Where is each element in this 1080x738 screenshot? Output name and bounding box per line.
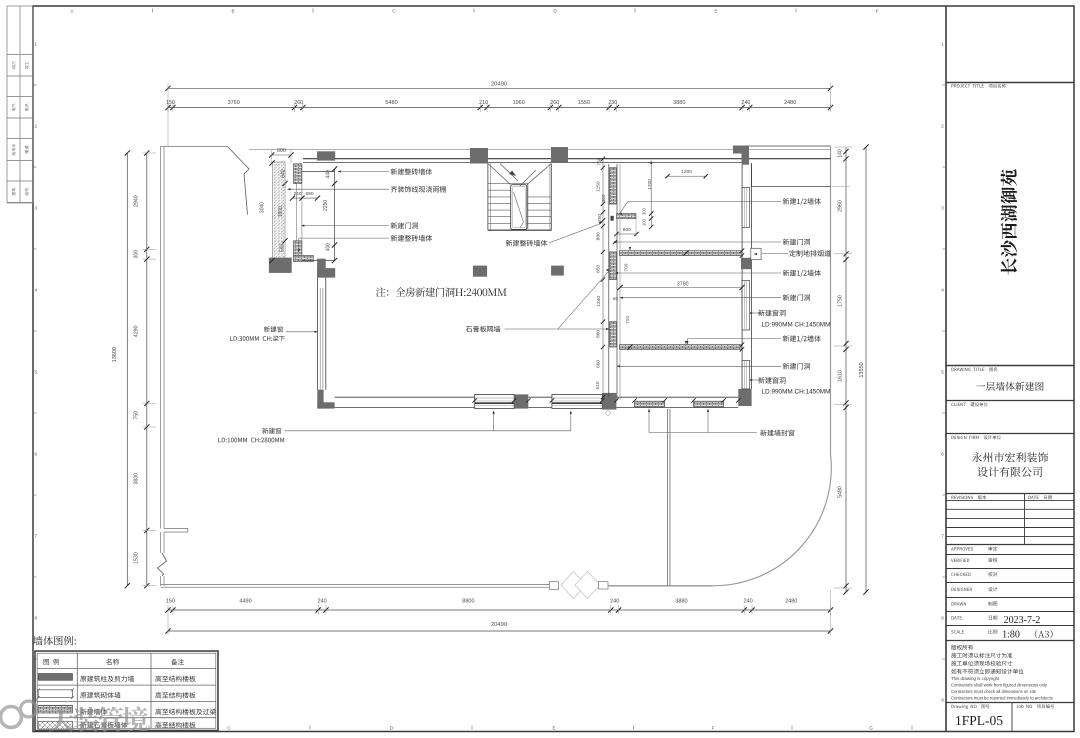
svg-text:590: 590 (279, 244, 285, 253)
svg-text:300: 300 (642, 207, 647, 215)
revisions rule (946, 493, 1074, 495)
svg-text:1800: 1800 (278, 206, 284, 217)
dim 600 wall stub (617, 233, 637, 235)
approved rule (946, 544, 1074, 546)
leader line door3 (618, 365, 781, 367)
overall bottom dimension 20490 (168, 630, 831, 632)
legend row3 texts (80, 709, 107, 715)
right wall lines (741, 165, 743, 389)
overall right dimension 13550 (865, 147, 867, 592)
wall stub junction block (611, 216, 614, 221)
partition wall arrows (629, 247, 631, 251)
svg-text:LD:990MM CH:1450MM: LD:990MM CH:1450MM (762, 389, 831, 396)
svg-text:660: 660 (596, 360, 602, 368)
svg-text:2023-7-2: 2023-7-2 (1004, 615, 1041, 626)
svg-text:5480: 5480 (385, 100, 397, 106)
verified row (951, 559, 969, 562)
svg-text:240: 240 (742, 100, 751, 106)
client rule (946, 400, 1074, 402)
label 新建门洞 (2) (783, 294, 810, 300)
svg-text:850: 850 (596, 264, 602, 272)
svg-text:440: 440 (325, 170, 331, 179)
site boundary right edge (830, 147, 832, 455)
svg-text:750: 750 (596, 157, 602, 165)
svg-text:1530: 1530 (134, 552, 140, 564)
checked row (951, 573, 970, 576)
label 定制地排烟道 (789, 250, 830, 257)
svg-text:3880: 3880 (673, 100, 685, 106)
svg-text:1200: 1200 (681, 169, 692, 175)
brick wall segment upper-left (294, 164, 302, 184)
label 新建门洞 (1) (783, 239, 810, 245)
svg-text:750: 750 (134, 411, 140, 420)
brick wall segment lower-left (294, 241, 302, 256)
site boundary top-left segment (161, 146, 228, 148)
job no label (1016, 704, 1054, 708)
svg-text:1: 1 (941, 42, 944, 47)
left window wall 4 lines (317, 278, 319, 390)
label 新建1/2墙体 (2) (783, 270, 821, 277)
brick infill wall east (sealed window) (694, 401, 724, 407)
horizontal partition wall upper (620, 251, 743, 256)
svg-text:3880: 3880 (675, 599, 687, 605)
svg-text:880: 880 (596, 329, 602, 337)
leader line door1 (614, 241, 781, 243)
checked rule (946, 568, 1074, 570)
left segment dimension line (146, 153, 148, 586)
brick infill wall west (sealed window) (635, 401, 665, 407)
label 新建1/2墙体 (3) (783, 335, 821, 342)
svg-text:2480: 2480 (784, 100, 796, 106)
drawn row (951, 602, 966, 605)
svg-text:B: B (231, 9, 234, 14)
svg-text:13550: 13550 (859, 362, 865, 377)
svg-text:1: 1 (35, 42, 38, 47)
legend row1 texts (80, 676, 134, 682)
dim 1700 vertical line (650, 161, 652, 228)
label 新建门洞 (left) (391, 222, 418, 228)
svg-text:7: 7 (35, 534, 38, 539)
client label (951, 402, 987, 406)
svg-text:F: F (876, 9, 879, 14)
column B2 (473, 266, 487, 277)
design firm name line2 (977, 467, 1042, 477)
svg-text:600: 600 (623, 227, 631, 233)
dark block below stipple wall (269, 258, 292, 273)
svg-text:140: 140 (838, 149, 844, 158)
watermark logo (1, 701, 148, 732)
scale row (951, 630, 964, 633)
copyright rule (946, 640, 1074, 642)
project name vertical text 长沙西湖御苑 (1001, 169, 1018, 274)
entrance gate leaf east (575, 572, 600, 599)
svg-text:60: 60 (613, 296, 618, 301)
leader line flue (762, 253, 781, 255)
svg-text:3: 3 (941, 206, 944, 211)
legend header texts (44, 659, 59, 665)
site boundary left lower + break (160, 532, 162, 553)
svg-text:4490: 4490 (239, 599, 251, 605)
overall left dimension 13600 (126, 153, 128, 586)
svg-text:6: 6 (941, 452, 944, 457)
svg-text:8: 8 (941, 616, 944, 621)
svg-text:600: 600 (277, 148, 286, 154)
svg-text:2960: 2960 (838, 200, 844, 212)
legend row4 texts (80, 722, 127, 728)
svg-text:3830: 3830 (134, 473, 140, 485)
label 新建窗洞 (1) (758, 310, 785, 316)
leader line window hole 2 (751, 379, 761, 381)
site boundary left step (164, 529, 188, 533)
svg-text:E: E (552, 726, 555, 731)
svg-text:100: 100 (642, 218, 647, 226)
svg-text:9: 9 (941, 698, 944, 703)
top wall double line (303, 158, 831, 160)
svg-text:640: 640 (281, 169, 287, 178)
interior wall brick hatch lower (610, 322, 617, 347)
label 新建窗洞 (2) (758, 377, 785, 383)
bottom window west (475, 394, 514, 408)
drawn rule (946, 597, 1074, 599)
date row (951, 616, 961, 619)
designer rule (946, 582, 1074, 584)
svg-text:2: 2 (35, 124, 38, 129)
svg-text:1:80: 1:80 (1002, 630, 1020, 641)
label 齐装饰线现浇雨棚 (391, 186, 446, 193)
svg-text:880: 880 (596, 232, 602, 240)
svg-text:5: 5 (35, 370, 38, 375)
column D3 bottom-right (738, 389, 751, 406)
svg-text:240: 240 (744, 599, 753, 605)
right window 3 (742, 360, 750, 389)
interior wall brick hatch upper (610, 168, 617, 204)
svg-text:8800: 8800 (462, 599, 474, 605)
site boundary rounded corner arc (712, 454, 831, 586)
entrance gate post east (599, 582, 609, 590)
svg-text:360: 360 (601, 194, 607, 202)
drawing no rule (946, 702, 1074, 704)
overall top dimension 20490 (168, 87, 831, 89)
svg-text:6: 6 (35, 452, 38, 457)
column A3 L-shape bottom-left (317, 390, 323, 409)
flue duct box (751, 248, 761, 259)
svg-text:LD:990MM CH:1450MM: LD:990MM CH:1450MM (762, 322, 831, 329)
svg-text:4290: 4290 (134, 325, 140, 337)
title block left border (945, 6, 947, 732)
stair bottom landing line (488, 230, 551, 232)
svg-text:20490: 20490 (491, 622, 507, 628)
drawing no label (951, 704, 989, 709)
wall junction tick marks (601, 166, 605, 170)
label 新建窗 LD:100MM CH:2800MM (262, 428, 281, 434)
svg-text:240: 240 (610, 599, 619, 605)
right wall dark block (741, 258, 752, 269)
staircase (487, 164, 489, 231)
site boundary bottom mid segment (608, 585, 712, 587)
bottom wall dark block (514, 394, 528, 408)
legend row2 texts (80, 692, 120, 698)
column C1 (551, 147, 568, 163)
svg-text:680: 680 (305, 191, 313, 197)
svg-text:230: 230 (608, 100, 617, 106)
small diamond marker (605, 410, 611, 416)
svg-text:1150: 1150 (596, 181, 602, 192)
door jamb lines left wall (296, 184, 298, 241)
project title label (951, 84, 1005, 88)
svg-text:1550: 1550 (578, 100, 590, 106)
column C2 (551, 266, 564, 276)
legend table grid (35, 651, 218, 731)
column A2 L-shape (317, 259, 326, 278)
interior wall brick hatch middle (610, 252, 617, 280)
upper-left room outline (334, 169, 336, 261)
label 新建墙封窗 (760, 430, 794, 436)
leader line wall half 2 (616, 272, 781, 274)
svg-text:710: 710 (625, 316, 631, 324)
design firm name line1 (972, 452, 1048, 462)
legend row2 swatch (38, 690, 72, 698)
top-right porch (752, 186, 831, 188)
legend heading 墙体图例 (33, 636, 76, 645)
svg-text:1FPL-05: 1FPL-05 (955, 713, 1003, 728)
svg-text:G: G (869, 726, 873, 731)
scale rule (946, 625, 1074, 627)
entrance gate leaf west (561, 572, 586, 599)
svg-text:2: 2 (941, 124, 944, 129)
stipple wall left (273, 162, 286, 261)
right window 1 (742, 187, 750, 227)
svg-text:4: 4 (941, 288, 944, 293)
svg-text:260: 260 (294, 100, 303, 106)
svg-text:150: 150 (166, 100, 175, 106)
drawing title 一层墙体新建图 (976, 382, 1043, 391)
revision table empty rows (946, 499, 1074, 501)
design firm label (951, 435, 1000, 439)
svg-text:510: 510 (595, 381, 601, 389)
svg-text:700: 700 (624, 263, 630, 271)
label 新建门洞 (3) (783, 363, 810, 369)
legend row4 swatch (38, 721, 72, 729)
svg-text:E: E (714, 9, 717, 14)
revisions label (951, 495, 986, 499)
top-right canopy line (733, 145, 831, 147)
column A1 (317, 151, 335, 160)
interior wall vertical lines (602, 159, 604, 400)
leader line wall half 1 (628, 200, 781, 202)
svg-text:7: 7 (941, 534, 944, 539)
svg-text:2940: 2940 (134, 195, 140, 207)
date rule (946, 611, 1074, 613)
brick wall segment bottom-left horizontal (294, 255, 314, 261)
left discipline strip (7, 6, 33, 203)
yard fence wall (667, 409, 669, 586)
svg-text:1340: 1340 (596, 296, 602, 307)
approved row (951, 547, 973, 550)
label 石膏板隔墙 (466, 326, 501, 333)
svg-text:This drawing is copyright: This drawing is copyright (951, 676, 1000, 681)
svg-text:210: 210 (479, 100, 488, 106)
revisions date label (1028, 495, 1051, 499)
label 新建整砖墙体 (1) (391, 168, 433, 175)
label 新建1/2墙体 (1) (783, 198, 821, 205)
revisions/date divider (1024, 494, 1026, 545)
drawing title rule (946, 365, 1074, 367)
design firm rule (946, 433, 1074, 435)
bottom window east (552, 394, 602, 408)
column B1 (470, 148, 488, 164)
svg-text:240: 240 (293, 191, 301, 197)
project title header rule (946, 82, 1074, 84)
top segment dimension line (168, 107, 831, 109)
svg-text:2480: 2480 (785, 599, 797, 605)
svg-text:300: 300 (134, 250, 140, 259)
svg-text:1700: 1700 (647, 179, 653, 190)
label 新建整砖墙体 (2) (391, 235, 433, 242)
svg-text:1750: 1750 (838, 295, 844, 307)
right window 2 (742, 281, 750, 330)
svg-text:13600: 13600 (112, 347, 118, 362)
site boundary top line to right (249, 149, 831, 151)
designer row (951, 588, 972, 591)
svg-text:1960: 1960 (513, 100, 525, 106)
svg-text:3: 3 (35, 206, 38, 211)
svg-text:8: 8 (35, 616, 38, 621)
svg-text:240: 240 (318, 599, 327, 605)
leader line wall half 3 (688, 338, 782, 340)
leader line window hole 1 (751, 312, 761, 314)
svg-text:2250: 2250 (323, 200, 329, 211)
right inner segment dimension line (845, 147, 847, 592)
svg-text:Contractors must be reported i: Contractors must be reported immediately… (951, 696, 1053, 701)
dim 600 top-left (272, 154, 291, 156)
legend row3 swatch (38, 705, 72, 713)
svg-text:4: 4 (35, 288, 38, 293)
bottom segment dimension line (168, 609, 831, 611)
svg-text:5: 5 (941, 370, 944, 375)
svg-text:400: 400 (325, 243, 331, 252)
leader line door2 (621, 297, 781, 299)
drawing title label (951, 367, 997, 371)
horizontal partition wall lower (620, 345, 743, 350)
column mid-bottom (602, 393, 616, 410)
svg-text:150: 150 (166, 599, 175, 605)
copyright text block (951, 645, 973, 650)
site boundary bottom west segment (161, 584, 550, 586)
svg-text:Contractors shall work from fi: Contractors shall work from figured dime… (951, 683, 1048, 688)
svg-text:5480: 5480 (838, 486, 844, 498)
verified rule (946, 554, 1074, 556)
svg-text:F: F (712, 726, 715, 731)
svg-text:20490: 20490 (491, 82, 507, 88)
svg-text:3040: 3040 (260, 202, 266, 213)
wall stub right of interior wall (617, 214, 637, 219)
drawing no divider (1011, 703, 1013, 732)
bottom wall lines (335, 396, 475, 398)
svg-text:Contractors must check all dim: Contractors must check all dimensions on… (951, 689, 1037, 694)
legend row1 swatch (38, 674, 72, 681)
column D1 L-shape (733, 146, 749, 154)
label 新建整砖墙体 (stair side) (506, 240, 548, 247)
label 新建窗 LD:300MM CH:梁下 (264, 326, 283, 332)
site boundary left edge (160, 147, 162, 529)
note 全房新建门洞 (376, 287, 507, 297)
svg-text:260: 260 (550, 100, 559, 106)
svg-text:3780: 3780 (677, 282, 689, 288)
site boundary break symbol top (228, 147, 250, 215)
entrance gate post west (550, 582, 559, 590)
svg-text:3760: 3760 (228, 100, 240, 106)
svg-text:1610: 1610 (838, 370, 844, 382)
